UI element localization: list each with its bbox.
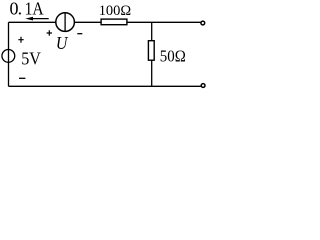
polarity + of U <box>47 30 52 36</box>
resistor R2 50Ω (vertical) <box>148 41 154 61</box>
svg-text:5V: 5V <box>21 49 41 69</box>
svg-text:U: U <box>56 33 68 53</box>
label 0.1A <box>10 0 44 19</box>
polarity − of 5V <box>19 77 25 79</box>
wire: bottom net to terminal b <box>9 85 201 87</box>
svg-text:1A: 1A <box>25 0 44 19</box>
voltage source 5V (circle on left wire) <box>2 50 15 63</box>
terminal b (bottom right, open circle) <box>201 84 205 88</box>
wire: 50Ω branch <box>151 22 153 86</box>
wire: top net from source U through R1 to terminal a <box>9 21 201 23</box>
svg-text:100Ω: 100Ω <box>99 3 132 19</box>
wire: left branch through 5V source <box>8 22 10 86</box>
polarity + of 5V <box>18 37 23 43</box>
svg-text:50Ω: 50Ω <box>160 47 186 66</box>
current arrow 0.1A (pointing left) <box>25 17 48 21</box>
svg-text:.: . <box>18 0 23 19</box>
resistor R1 100Ω (horizontal) <box>101 19 127 25</box>
polarity − of U <box>77 33 82 35</box>
voltage source U (circle with vertical bar) <box>56 13 75 32</box>
terminal a (top right, open circle) <box>201 21 205 25</box>
